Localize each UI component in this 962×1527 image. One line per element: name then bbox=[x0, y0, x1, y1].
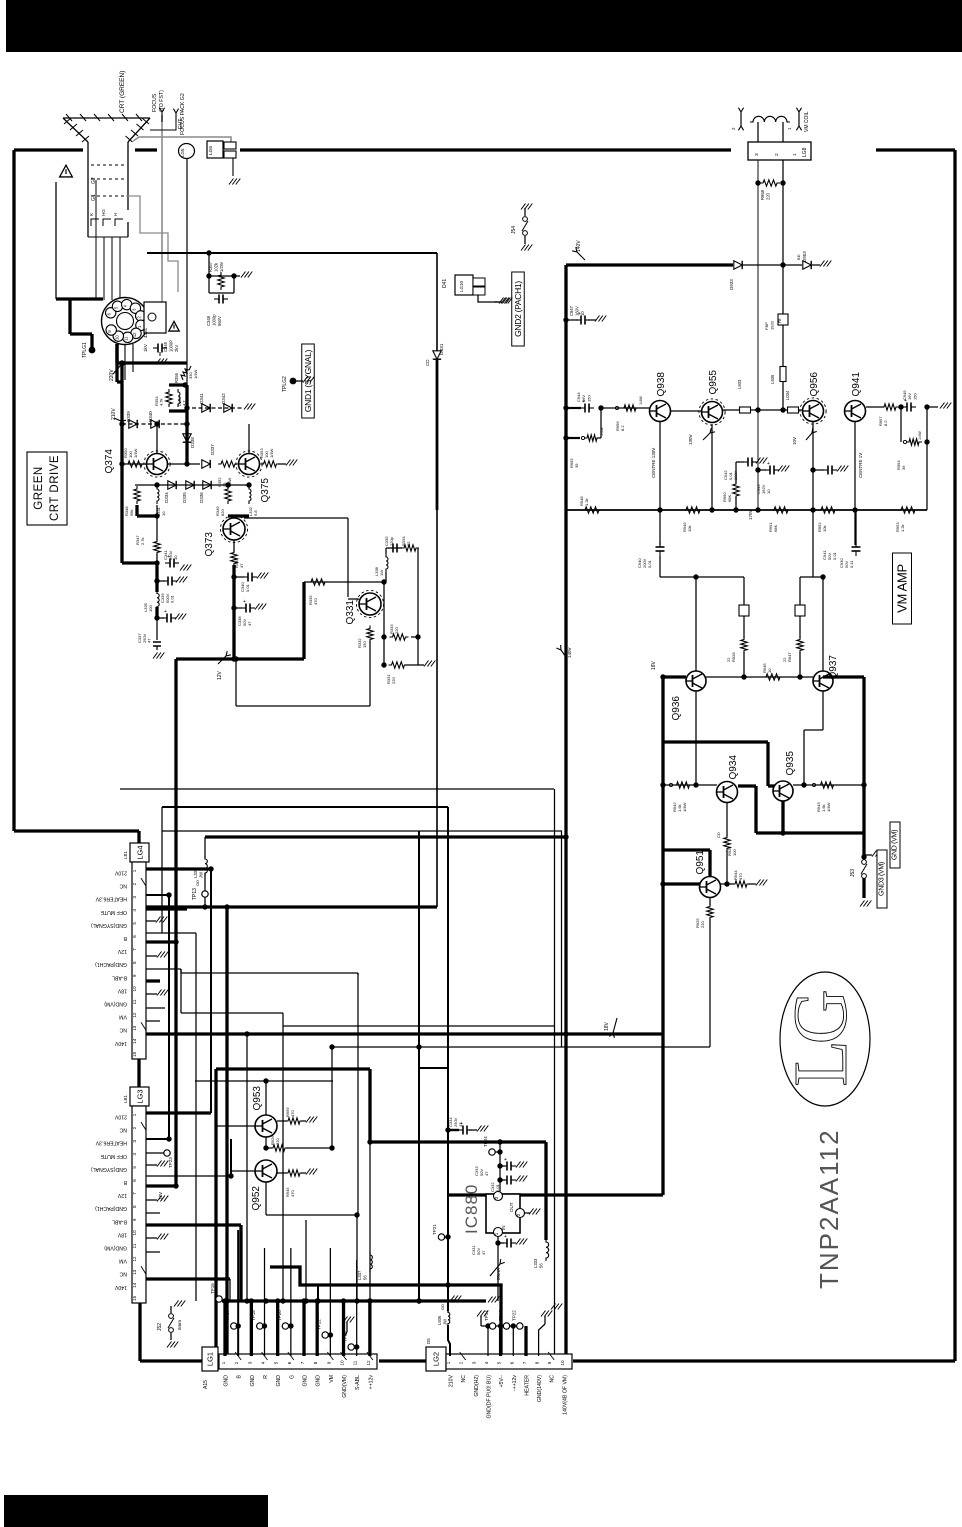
svg-text:Q951: Q951 bbox=[695, 850, 706, 875]
svg-text:VM: VM bbox=[119, 1258, 127, 1264]
svg-text:VM: VM bbox=[119, 1014, 127, 1020]
svg-text:NC: NC bbox=[119, 1271, 127, 1277]
svg-text:4: 4 bbox=[484, 1361, 489, 1364]
svg-text:CD: CD bbox=[716, 832, 721, 838]
svg-text:6: 6 bbox=[287, 1361, 292, 1364]
svg-text:R947: R947 bbox=[787, 652, 792, 662]
svg-text:C345: C345 bbox=[163, 341, 168, 352]
svg-text:JW: JW bbox=[442, 1319, 447, 1325]
svg-text:470: 470 bbox=[313, 598, 318, 605]
svg-text:LG6: LG6 bbox=[208, 146, 214, 155]
svg-text:12V: 12V bbox=[117, 1192, 127, 1198]
svg-text:TP18: TP18 bbox=[251, 1310, 256, 1321]
svg-text:470: 470 bbox=[290, 1110, 295, 1117]
svg-text:GND(VM): GND(VM) bbox=[104, 1245, 127, 1251]
svg-text:10V: 10V bbox=[792, 437, 797, 445]
svg-text:L933: L933 bbox=[737, 379, 742, 389]
svg-text:4.7k: 4.7k bbox=[159, 398, 164, 406]
svg-text:1: 1 bbox=[132, 869, 137, 872]
svg-text:TP21: TP21 bbox=[432, 1224, 437, 1235]
svg-text:10k: 10k bbox=[687, 526, 692, 532]
svg-text:GND(140V): GND(140V) bbox=[537, 1375, 543, 1402]
svg-text:5: 5 bbox=[274, 1361, 279, 1364]
svg-text:15: 15 bbox=[132, 1051, 137, 1057]
svg-text:820: 820 bbox=[220, 509, 225, 516]
svg-text:L935: L935 bbox=[770, 374, 775, 384]
svg-text:FOCUS: FOCUS bbox=[152, 93, 158, 112]
svg-text:LG: LG bbox=[779, 991, 863, 1086]
svg-text:TP13: TP13 bbox=[192, 888, 198, 900]
svg-text:FBP: FBP bbox=[764, 322, 769, 330]
svg-text:12V: 12V bbox=[217, 670, 223, 680]
svg-text:13: 13 bbox=[132, 1025, 137, 1031]
svg-text:0.01: 0.01 bbox=[170, 594, 175, 603]
svg-text:12V: 12V bbox=[117, 948, 127, 954]
svg-text:3: 3 bbox=[132, 895, 137, 898]
svg-text:D5: D5 bbox=[426, 1338, 431, 1344]
svg-text:TP22: TP22 bbox=[511, 1310, 516, 1321]
svg-text:GND: GND bbox=[303, 1375, 309, 1387]
svg-text:2.7k: 2.7k bbox=[140, 537, 145, 545]
svg-text:8.2: 8.2 bbox=[883, 420, 888, 426]
svg-text:IN: IN bbox=[501, 1226, 506, 1231]
svg-text:OFF MUTE: OFF MUTE bbox=[100, 909, 127, 915]
svg-text:210V: 210V bbox=[449, 1374, 455, 1387]
svg-text:18V: 18V bbox=[604, 1021, 610, 1031]
svg-text:470: 470 bbox=[290, 1190, 295, 1197]
svg-text:560V: 560V bbox=[217, 316, 222, 326]
svg-text:1000p: 1000p bbox=[211, 314, 216, 326]
svg-text:10: 10 bbox=[767, 668, 772, 673]
svg-text:4331: 4331 bbox=[143, 327, 148, 338]
svg-text:10k: 10k bbox=[822, 526, 827, 532]
svg-text:200V: 200V bbox=[733, 470, 738, 480]
svg-text:220: 220 bbox=[275, 1138, 280, 1145]
svg-text:Q934: Q934 bbox=[728, 755, 739, 780]
svg-text:140V: 140V bbox=[114, 1284, 127, 1290]
svg-text:2: 2 bbox=[774, 153, 780, 156]
svg-text:J53: J53 bbox=[850, 869, 856, 877]
svg-text:GND3 (VM): GND3 (VM) bbox=[879, 862, 886, 896]
svg-text:FB: FB bbox=[778, 318, 782, 323]
svg-text:9: 9 bbox=[132, 1218, 137, 1221]
svg-text:NC: NC bbox=[550, 1375, 556, 1383]
svg-text:210V: 210V bbox=[114, 870, 127, 876]
svg-text:LB1: LB1 bbox=[123, 1094, 128, 1103]
svg-text:LG5: LG5 bbox=[180, 148, 185, 157]
svg-text:GND(PACH1): GND(PACH1) bbox=[95, 961, 127, 967]
svg-text:12: 12 bbox=[366, 1360, 371, 1366]
svg-text:LG2: LG2 bbox=[432, 1352, 441, 1366]
svg-text:5: 5 bbox=[132, 1166, 137, 1169]
svg-text:8: 8 bbox=[132, 1205, 137, 1208]
svg-text:GND(PACH1): GND(PACH1) bbox=[95, 1205, 127, 1211]
svg-text:Q936: Q936 bbox=[671, 696, 682, 721]
svg-text:10: 10 bbox=[340, 1360, 345, 1366]
svg-text:GND(VM): GND(VM) bbox=[342, 1375, 348, 1398]
svg-text:R928: R928 bbox=[731, 652, 736, 662]
svg-text:OUT: OUT bbox=[509, 1202, 514, 1212]
svg-text:VM AMP: VM AMP bbox=[895, 564, 910, 613]
svg-text:NC: NC bbox=[119, 883, 127, 889]
svg-text:11: 11 bbox=[132, 999, 137, 1004]
svg-text:TP19: TP19 bbox=[343, 1331, 348, 1342]
svg-text:TP23: TP23 bbox=[168, 1157, 173, 1168]
svg-text:1/4W: 1/4W bbox=[682, 802, 687, 812]
svg-text:OFF MUTE: OFF MUTE bbox=[100, 1153, 127, 1159]
svg-text:GND2 (PACH1): GND2 (PACH1) bbox=[513, 281, 523, 337]
svg-text:22: 22 bbox=[406, 541, 411, 546]
svg-text:8: 8 bbox=[313, 1361, 318, 1364]
svg-text:150: 150 bbox=[586, 395, 591, 402]
svg-text:1/4W: 1/4W bbox=[269, 448, 274, 458]
svg-text:+: + bbox=[504, 1234, 507, 1240]
svg-text:160V: 160V bbox=[574, 306, 579, 316]
svg-text:D342: D342 bbox=[221, 393, 226, 404]
svg-text:18V: 18V bbox=[651, 660, 657, 670]
svg-text:B: B bbox=[237, 1374, 243, 1378]
svg-text:C947: C947 bbox=[569, 305, 574, 316]
svg-text:39: 39 bbox=[901, 465, 906, 470]
svg-text:Q331: Q331 bbox=[345, 600, 356, 625]
svg-text:10: 10 bbox=[132, 986, 137, 992]
svg-text:7: 7 bbox=[522, 1361, 527, 1364]
svg-text:39: 39 bbox=[574, 463, 579, 468]
svg-text:TP20: TP20 bbox=[277, 1310, 282, 1321]
svg-text:9: 9 bbox=[132, 974, 137, 977]
svg-text:1: 1 bbox=[221, 1361, 226, 1364]
svg-text:3: 3 bbox=[471, 1361, 476, 1364]
svg-text:Q941: Q941 bbox=[851, 372, 862, 397]
svg-text:6: 6 bbox=[509, 1361, 514, 1364]
svg-text:2: 2 bbox=[132, 882, 137, 885]
svg-text:1W: 1W bbox=[379, 570, 384, 576]
svg-text:3: 3 bbox=[247, 1361, 252, 1364]
svg-text:VM COIL: VM COIL bbox=[804, 111, 810, 132]
svg-text:1/4W: 1/4W bbox=[600, 427, 604, 436]
svg-text:L337: L337 bbox=[357, 1270, 362, 1280]
svg-text:TPLG2: TPLG2 bbox=[282, 376, 288, 392]
svg-text:TP15: TP15 bbox=[498, 1310, 503, 1321]
svg-text:LG8: LG8 bbox=[802, 147, 808, 157]
svg-text:4: 4 bbox=[132, 909, 137, 912]
svg-text:NC: NC bbox=[119, 1127, 127, 1133]
svg-text:0.01: 0.01 bbox=[647, 559, 652, 568]
svg-text:(TO FST): (TO FST) bbox=[159, 90, 165, 112]
svg-text:TNP2AA112: TNP2AA112 bbox=[814, 1128, 844, 1289]
svg-text:10: 10 bbox=[161, 511, 166, 516]
svg-text:CENTRE 1V: CENTRE 1V bbox=[858, 453, 863, 478]
svg-text:+5V--: +5V-- bbox=[499, 1375, 505, 1388]
svg-text:11: 11 bbox=[124, 336, 129, 341]
svg-text:D933: D933 bbox=[729, 279, 734, 290]
svg-text:14: 14 bbox=[132, 1038, 137, 1044]
svg-text:1: 1 bbox=[446, 1361, 451, 1364]
svg-text:9: 9 bbox=[326, 1361, 331, 1364]
svg-text:8: 8 bbox=[535, 1361, 540, 1364]
svg-text:IC880: IC880 bbox=[462, 1184, 481, 1234]
svg-text:VM: VM bbox=[329, 1375, 335, 1383]
svg-text:100: 100 bbox=[148, 605, 153, 612]
svg-text:1.2k: 1.2k bbox=[900, 524, 905, 532]
svg-text:220: 220 bbox=[394, 627, 399, 634]
svg-text:68K: 68K bbox=[727, 495, 732, 502]
svg-text:L936: L936 bbox=[437, 1315, 442, 1325]
svg-text:10: 10 bbox=[114, 335, 119, 340]
svg-text:+: + bbox=[504, 1157, 507, 1163]
svg-text:J54: J54 bbox=[511, 226, 517, 234]
svg-text:GND: GND bbox=[250, 1375, 256, 1387]
svg-text:2: 2 bbox=[234, 1361, 239, 1364]
svg-text:140V(4B OF VM): 140V(4B OF VM) bbox=[562, 1375, 568, 1415]
svg-text:1: 1 bbox=[792, 153, 798, 156]
svg-text:CRT DRIVE: CRT DRIVE bbox=[49, 455, 61, 521]
svg-text:Q952: Q952 bbox=[251, 1186, 262, 1211]
svg-text:L034: L034 bbox=[785, 390, 790, 400]
svg-text:GND (VM): GND (VM) bbox=[892, 830, 899, 860]
svg-text:47: 47 bbox=[458, 1122, 463, 1127]
svg-text:10: 10 bbox=[173, 555, 178, 560]
svg-text:7: 7 bbox=[300, 1361, 305, 1364]
svg-text:8: 8 bbox=[132, 961, 137, 964]
svg-text:HEATER6.3V: HEATER6.3V bbox=[95, 1140, 127, 1146]
svg-text:B: B bbox=[123, 935, 127, 941]
svg-text:3: 3 bbox=[132, 1139, 137, 1142]
svg-text:47: 47 bbox=[247, 621, 252, 626]
svg-text:56: 56 bbox=[362, 1275, 367, 1280]
svg-text:140V: 140V bbox=[567, 647, 572, 658]
svg-text:1/4W: 1/4W bbox=[639, 396, 643, 405]
svg-text:Q373: Q373 bbox=[204, 532, 215, 557]
svg-text:B-ABL: B-ABL bbox=[112, 974, 127, 980]
svg-text:LB1: LB1 bbox=[123, 850, 128, 859]
svg-text:GND(DF PU0! BU): GND(DF PU0! BU) bbox=[486, 1375, 492, 1419]
svg-text:56k: 56k bbox=[129, 510, 134, 516]
svg-text:D338: D338 bbox=[190, 437, 195, 448]
svg-text:11: 11 bbox=[132, 1243, 137, 1248]
svg-text:220p: 220p bbox=[389, 536, 394, 546]
svg-text:GND(H2): GND(H2) bbox=[474, 1375, 480, 1397]
svg-text:H: H bbox=[113, 213, 118, 216]
svg-text:1920: 1920 bbox=[769, 320, 774, 330]
svg-text:10: 10 bbox=[580, 311, 585, 316]
svg-text:D336: D336 bbox=[199, 492, 204, 503]
svg-text:2: 2 bbox=[132, 1126, 137, 1129]
svg-text:D41: D41 bbox=[442, 279, 448, 288]
svg-text:D340: D340 bbox=[148, 411, 153, 422]
svg-text:Q938: Q938 bbox=[656, 372, 667, 397]
svg-text:18V: 18V bbox=[117, 1231, 127, 1237]
svg-text:B-ABL: B-ABL bbox=[112, 1218, 127, 1224]
svg-text:J52: J52 bbox=[157, 1323, 163, 1331]
svg-text:1/4W: 1/4W bbox=[133, 448, 138, 458]
svg-text:220: 220 bbox=[391, 677, 396, 684]
svg-text:10: 10 bbox=[766, 489, 771, 494]
svg-text:R: R bbox=[263, 1375, 269, 1379]
svg-text:12: 12 bbox=[132, 1012, 137, 1018]
svg-text:1000P: 1000P bbox=[168, 340, 173, 352]
svg-text:47: 47 bbox=[484, 1171, 489, 1176]
svg-text:0.11: 0.11 bbox=[849, 560, 854, 568]
svg-text:GND(SYGNAL): GND(SYGNAL) bbox=[91, 922, 127, 928]
svg-text:Q956: Q956 bbox=[809, 372, 820, 397]
svg-text:140V: 140V bbox=[576, 240, 582, 252]
svg-text:-++12v: -++12v bbox=[512, 1375, 518, 1392]
svg-text:3: 3 bbox=[754, 153, 760, 156]
svg-text:TP16: TP16 bbox=[210, 1283, 215, 1294]
svg-text:LG10: LG10 bbox=[459, 280, 464, 292]
svg-text:6: 6 bbox=[132, 1179, 137, 1182]
svg-text:47: 47 bbox=[239, 563, 244, 568]
svg-text:OD: OD bbox=[440, 1304, 445, 1310]
svg-text:FOCUS PACK G2: FOCUS PACK G2 bbox=[180, 93, 186, 135]
svg-text:C348: C348 bbox=[206, 315, 211, 326]
svg-text:NC: NC bbox=[461, 1375, 467, 1383]
svg-text:1/4W: 1/4W bbox=[193, 369, 198, 379]
svg-text:0.01: 0.01 bbox=[832, 551, 837, 560]
svg-text:K: K bbox=[89, 213, 94, 216]
svg-text:1.2k: 1.2k bbox=[584, 498, 589, 506]
svg-text:TP14: TP14 bbox=[484, 1310, 489, 1321]
svg-text:2kV: 2kV bbox=[174, 345, 179, 352]
svg-text:1/2W: 1/2W bbox=[219, 262, 224, 272]
svg-text:++12v: ++12v bbox=[368, 1375, 374, 1390]
svg-text:LG3: LG3 bbox=[136, 1089, 145, 1103]
svg-text:47: 47 bbox=[147, 638, 152, 643]
svg-text:D334: D334 bbox=[164, 492, 169, 503]
svg-text:150: 150 bbox=[362, 641, 367, 648]
svg-text:5: 5 bbox=[497, 1361, 502, 1364]
svg-text:1/4W: 1/4W bbox=[918, 431, 922, 440]
svg-text:130V: 130V bbox=[688, 434, 693, 445]
svg-text:TP12: TP12 bbox=[317, 1319, 322, 1330]
svg-text:470: 470 bbox=[738, 873, 743, 880]
svg-text:CRT (GREEN): CRT (GREEN) bbox=[119, 71, 126, 113]
svg-text:+: + bbox=[243, 599, 246, 605]
svg-text:11: 11 bbox=[353, 1360, 358, 1365]
svg-text:TP17: TP17 bbox=[225, 1310, 230, 1321]
svg-text:JW: JW bbox=[198, 872, 203, 878]
svg-text:2: 2 bbox=[459, 1361, 464, 1364]
svg-text:D953: D953 bbox=[802, 251, 807, 262]
svg-text:1: 1 bbox=[132, 1113, 137, 1116]
svg-text:4: 4 bbox=[261, 1361, 266, 1364]
svg-text:D331: D331 bbox=[439, 343, 445, 355]
svg-text:+: + bbox=[767, 461, 770, 467]
svg-text:Q935: Q935 bbox=[785, 751, 796, 776]
svg-text:9: 9 bbox=[547, 1361, 552, 1364]
svg-text:NC: NC bbox=[119, 1027, 127, 1033]
svg-text:13: 13 bbox=[132, 1269, 137, 1275]
svg-text:GND(VM): GND(VM) bbox=[104, 1001, 127, 1007]
svg-text:14: 14 bbox=[132, 1282, 137, 1288]
svg-text:Q953: Q953 bbox=[252, 1086, 263, 1111]
svg-text:TP24: TP24 bbox=[483, 1136, 488, 1147]
svg-text:S-ABL: S-ABL bbox=[355, 1375, 361, 1390]
svg-text:220: 220 bbox=[765, 192, 770, 200]
svg-text:B: B bbox=[123, 1179, 127, 1185]
svg-text:68K: 68K bbox=[773, 525, 778, 532]
svg-text:210V: 210V bbox=[114, 1114, 127, 1120]
svg-text:6.8: 6.8 bbox=[253, 510, 258, 516]
svg-text:5mm: 5mm bbox=[177, 1320, 182, 1330]
svg-text:0.01: 0.01 bbox=[495, 1183, 500, 1192]
svg-text:OD: OD bbox=[195, 880, 200, 886]
svg-text:Q374: Q374 bbox=[104, 449, 115, 474]
svg-text:TPLG1: TPLG1 bbox=[82, 342, 88, 358]
svg-text:6: 6 bbox=[132, 935, 137, 938]
svg-text:D335: D335 bbox=[182, 492, 187, 503]
svg-text:LG1: LG1 bbox=[206, 1352, 215, 1366]
svg-text:10: 10 bbox=[560, 1360, 565, 1366]
svg-text:220: 220 bbox=[700, 921, 705, 928]
svg-text:102k: 102k bbox=[213, 262, 218, 272]
svg-text:Q375: Q375 bbox=[260, 478, 271, 503]
svg-text:5: 5 bbox=[132, 922, 137, 925]
svg-text:15: 15 bbox=[132, 1295, 137, 1301]
svg-text:LG4: LG4 bbox=[136, 845, 145, 859]
svg-text:HEATER6.3V: HEATER6.3V bbox=[95, 896, 127, 902]
svg-text:GND: GND bbox=[224, 1375, 230, 1387]
svg-text:HEATER: HEATER bbox=[524, 1375, 530, 1396]
svg-text:Q955: Q955 bbox=[708, 370, 719, 395]
svg-text:1/4W: 1/4W bbox=[826, 802, 831, 812]
svg-text:56: 56 bbox=[538, 1263, 543, 1268]
svg-text:170V: 170V bbox=[748, 509, 753, 520]
svg-text:GND: GND bbox=[316, 1375, 322, 1387]
svg-text:CENTRE 130V: CENTRE 130V bbox=[651, 448, 656, 478]
svg-text:CD: CD bbox=[425, 359, 430, 366]
svg-text:R958: R958 bbox=[760, 189, 765, 200]
svg-text:1kV: 1kV bbox=[143, 343, 148, 352]
svg-text:0.01: 0.01 bbox=[245, 583, 250, 592]
svg-text:18V: 18V bbox=[117, 987, 127, 993]
svg-text:L333: L333 bbox=[533, 1258, 538, 1268]
svg-text:140V: 140V bbox=[114, 1040, 127, 1046]
svg-text:10: 10 bbox=[132, 1230, 137, 1236]
svg-text:GND(SYGNAL): GND(SYGNAL) bbox=[91, 1166, 127, 1172]
svg-text:150: 150 bbox=[912, 393, 917, 400]
svg-text:8.2: 8.2 bbox=[620, 425, 625, 431]
svg-text:GND: GND bbox=[276, 1375, 282, 1387]
svg-text:100: 100 bbox=[732, 849, 737, 856]
svg-text:D341: D341 bbox=[199, 393, 204, 404]
svg-text:47: 47 bbox=[481, 1250, 486, 1255]
svg-text:A15: A15 bbox=[203, 1380, 209, 1389]
svg-text:12: 12 bbox=[132, 1256, 137, 1262]
svg-text:7: 7 bbox=[132, 948, 137, 951]
svg-text:D337: D337 bbox=[210, 444, 215, 455]
svg-text:R357: R357 bbox=[208, 261, 213, 272]
svg-text:G: G bbox=[289, 1375, 295, 1379]
svg-text:R356: R356 bbox=[174, 372, 179, 383]
svg-text:80mA: 80mA bbox=[496, 1268, 501, 1280]
svg-text:220V: 220V bbox=[109, 369, 115, 381]
svg-text:7: 7 bbox=[132, 1192, 137, 1195]
svg-text:HG: HG bbox=[101, 209, 106, 216]
svg-text:BD: BD bbox=[796, 254, 801, 260]
svg-text:+: + bbox=[164, 609, 167, 615]
svg-text:D339: D339 bbox=[126, 411, 131, 422]
svg-text:4: 4 bbox=[132, 1153, 137, 1156]
svg-text:GREEN: GREEN bbox=[33, 466, 45, 509]
